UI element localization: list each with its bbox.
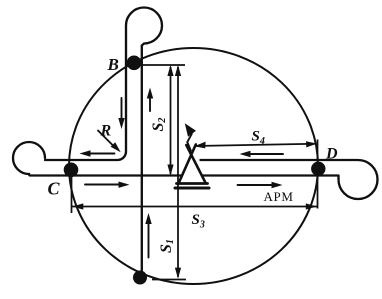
bottom node	[133, 271, 147, 285]
svg-text:D: D	[325, 146, 338, 163]
svg-text:S4: S4	[252, 129, 265, 148]
S2 down arrowhead	[167, 165, 173, 176]
down flow arrowhead	[118, 118, 124, 129]
S4 right arrowhead	[306, 141, 317, 147]
svg-text:S2: S2	[150, 118, 168, 132]
S3 dimension line	[72, 206, 317, 208]
up flow arrowhead top	[147, 88, 153, 99]
svg-text:B: B	[107, 55, 119, 74]
S1 up arrowhead	[175, 65, 181, 76]
S1 down arrowhead	[175, 268, 181, 279]
fulcrum triangle base	[177, 182, 208, 185]
svg-text:S1: S1	[158, 239, 176, 253]
svg-text:C: C	[48, 179, 61, 199]
svg-text:APM: APM	[264, 189, 294, 204]
fulcrum triangle left edge	[179, 145, 196, 184]
up flow arrow shaft bottom	[148, 224, 150, 258]
node B	[127, 56, 142, 71]
zigzag force arrow shaft at apex	[187, 134, 192, 151]
large circle body	[69, 48, 318, 284]
S3 left arrowhead	[72, 203, 83, 209]
left flow arrowhead upper right	[240, 151, 251, 157]
left flow arrowhead upper left	[80, 150, 91, 156]
S4 left arrowhead	[194, 142, 205, 149]
C extension line	[71, 177, 73, 213]
fulcrum triangle right edge	[186, 145, 206, 183]
R pointer arrowhead	[111, 142, 121, 152]
right flow arrowhead lower right	[272, 182, 283, 188]
R pointer arrow shaft	[98, 131, 116, 149]
S3 right arrowhead	[306, 203, 317, 209]
svg-text:R: R	[100, 123, 112, 140]
right extension line through D	[317, 140, 319, 209]
left flow arrow shaft upper right	[250, 153, 283, 155]
beam left top edge, elbow, vertical rod left edge, top eye loop, vertical rod right edge	[45, 8, 162, 271]
node D	[311, 162, 325, 176]
node C	[64, 163, 79, 178]
svg-text:S3: S3	[192, 212, 205, 231]
zigzag force arrowhead	[185, 123, 196, 137]
right flow arrow shaft lower right	[238, 184, 273, 186]
up flow arrow shaft right of rod	[149, 97, 151, 111]
S2 dimension line	[170, 67, 172, 174]
S2 up arrowhead	[167, 65, 173, 76]
B level extension line	[142, 64, 185, 66]
bottom level tick line	[152, 279, 186, 281]
right flow arrowhead lower left	[119, 182, 130, 188]
left flow arrow shaft upper left	[90, 153, 115, 155]
S1 dimension line	[177, 67, 179, 277]
right flow arrow shaft lower left	[85, 184, 120, 186]
S4 dimension line	[195, 144, 317, 146]
fulcrum triangle white fill	[179, 152, 206, 184]
beam right top edge with right eye loop	[201, 160, 378, 199]
beam bottom edge with left eye loop	[13, 142, 339, 176]
fulcrum ground bar	[175, 187, 209, 190]
down flow arrow shaft left of rod	[121, 98, 123, 122]
up flow arrowhead bottom	[145, 213, 151, 224]
